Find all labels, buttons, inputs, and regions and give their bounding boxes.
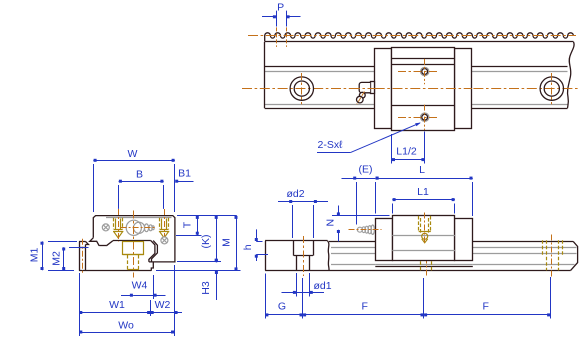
svg-text:G: G bbox=[278, 300, 286, 312]
svg-text:P: P bbox=[277, 2, 284, 14]
svg-text:L1/2: L1/2 bbox=[396, 145, 417, 157]
svg-text:W2: W2 bbox=[155, 299, 171, 311]
svg-text:B: B bbox=[136, 168, 143, 180]
svg-text:M1: M1 bbox=[29, 248, 41, 263]
svg-text:h: h bbox=[242, 244, 254, 250]
svg-text:L1: L1 bbox=[417, 186, 429, 198]
svg-text:ød2: ød2 bbox=[286, 188, 304, 200]
svg-text:H3: H3 bbox=[200, 281, 212, 295]
svg-text:T: T bbox=[181, 221, 193, 228]
svg-text:N: N bbox=[324, 219, 336, 227]
svg-text:W4: W4 bbox=[132, 280, 148, 292]
svg-text:W1: W1 bbox=[109, 299, 125, 311]
svg-text:M2: M2 bbox=[51, 251, 63, 266]
svg-text:(K): (K) bbox=[200, 235, 212, 249]
svg-text:ød1: ød1 bbox=[313, 280, 331, 292]
svg-text:F: F bbox=[361, 300, 367, 312]
svg-text:(E): (E) bbox=[359, 163, 373, 175]
svg-text:2-Sxℓ: 2-Sxℓ bbox=[318, 139, 344, 151]
svg-text:L: L bbox=[419, 164, 425, 176]
svg-text:Wo: Wo bbox=[118, 319, 134, 331]
svg-text:B1: B1 bbox=[178, 168, 191, 180]
svg-text:M: M bbox=[221, 238, 233, 247]
svg-text:W: W bbox=[127, 148, 137, 160]
svg-text:F: F bbox=[482, 300, 488, 312]
